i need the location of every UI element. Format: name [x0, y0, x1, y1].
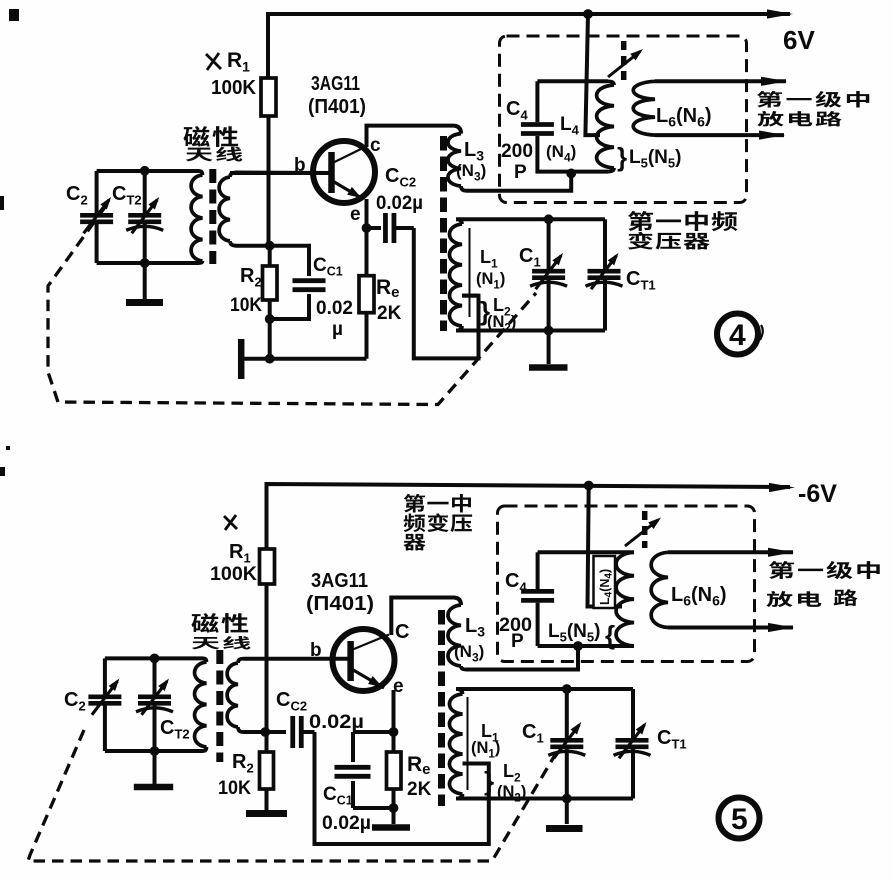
circled figure number 5	[719, 798, 760, 839]
svg-text:6V: 6V	[783, 25, 815, 55]
svg-text:3AG11: 3AG11	[311, 569, 368, 592]
scan speck left edge low	[0, 467, 5, 476]
wire L6 top lead fig5	[668, 550, 793, 554]
svg-text:P: P	[514, 162, 527, 183]
wire emitter down fig5	[392, 690, 396, 732]
transistor V1 emitter stroke fig4	[333, 181, 364, 199]
junction supply/primary fig4	[583, 9, 593, 19]
junction R2 bottom fig4	[265, 314, 275, 324]
transistor V1 emitter stroke fig5	[352, 669, 385, 688]
wire emitter down fig4	[365, 199, 369, 228]
wire C4L4 top rail fig4	[537, 79, 608, 83]
capacitor C1 fig4	[547, 219, 551, 271]
label di-yi-zhong col fig5	[404, 494, 425, 513]
label di-yi-ji-zhong fig4	[757, 91, 782, 108]
ground antenna tank fig4	[126, 299, 163, 306]
svg-text:b: b	[310, 640, 322, 661]
inductor L1 winding fig4	[456, 219, 462, 224]
wire supply tap fig5	[588, 486, 623, 607]
antenna primary winding fig4	[199, 171, 203, 175]
junction base bias fig4	[265, 241, 275, 251]
resistor R2 fig4	[268, 246, 272, 266]
label fang-dian fig5	[766, 591, 792, 607]
wire Re ground stem fig5	[392, 808, 396, 824]
inductor L6 fig4	[633, 81, 655, 135]
junction emitter node fig5	[389, 727, 399, 737]
label tianxian (antenna) fig4	[186, 148, 213, 162]
circled figure number 4	[717, 314, 758, 355]
junction C1 bottom fig4	[544, 326, 554, 336]
gang dashed link fig4	[48, 207, 536, 405]
svg-text:µ: µ	[332, 319, 343, 340]
svg-text:(П401): (П401)	[308, 96, 366, 118]
wire tank bottom rail fig5	[105, 749, 203, 753]
junction L3/C4 fig4	[566, 169, 576, 179]
junction C1 top fig4	[544, 214, 554, 224]
junction tank bottom fig4	[140, 258, 150, 268]
transistor V1 circle fig5	[333, 629, 395, 691]
trimmer core arrow fig4	[621, 41, 627, 80]
wire tank top rail fig4	[97, 169, 199, 173]
transistor V1 base bar fig4	[328, 152, 335, 193]
wire C4L4 bottom rail fig4	[571, 170, 608, 174]
dashed box T1 fig5	[498, 506, 755, 662]
wire L6 bottom lead fig5	[668, 626, 793, 630]
svg-text:0.02µ: 0.02µ	[376, 193, 423, 214]
ground IF tank fig5	[546, 825, 583, 832]
capacitor CT2 fig4	[143, 171, 147, 215]
inductor L4 L5 fig5	[616, 552, 634, 646]
resistor R1 fig4	[261, 78, 276, 116]
resistor Re fig4	[365, 228, 369, 276]
junction L3/C4 fig5	[573, 641, 583, 651]
svg-text:c: c	[370, 135, 381, 156]
wire collector to L3 fig5	[391, 598, 453, 636]
tap L1/L2 fig4	[462, 294, 479, 298]
label cixing (magnetic) fig4	[183, 126, 209, 147]
junction tank top fig5	[150, 654, 160, 664]
wire tank bottom rail fig5	[456, 797, 633, 801]
wire secondary bottom fig4	[235, 244, 270, 248]
svg-text:2K: 2K	[407, 779, 432, 800]
inductor L6 fig5	[651, 552, 668, 627]
svg-text:}: }	[484, 766, 494, 796]
svg-text:3AG11: 3AG11	[311, 72, 360, 95]
dashed box T1 fig4	[500, 36, 747, 203]
svg-text:5: 5	[731, 803, 748, 836]
svg-text:10K: 10K	[230, 295, 262, 316]
x-mark on R1 fig4	[206, 54, 221, 69]
transistor V1 circle fig4	[313, 141, 375, 203]
ground R2 fig5	[246, 810, 287, 817]
scan speck top-left	[9, 9, 19, 21]
wire C4L4 top rail fig5	[538, 550, 634, 554]
svg-text:0.02µ: 0.02µ	[309, 712, 364, 733]
capacitor CT1 fig4	[603, 219, 607, 271]
wire secondary top to base fig4	[235, 171, 332, 176]
label di-yi-zhong-pin fig4	[628, 211, 653, 231]
x-mark on R1 fig5	[224, 516, 237, 529]
transistor V1 base bar fig5	[347, 641, 354, 681]
label tianxian fig5	[192, 637, 220, 649]
capacitor CT2 fig5	[153, 658, 157, 697]
junction ground node fig4	[265, 354, 275, 364]
resistor R2 fig5	[265, 732, 269, 752]
wire emitter to Cc1 fig5	[353, 730, 394, 734]
label qi col fig5	[403, 534, 425, 551]
capacitor CC1 fig4	[270, 246, 309, 276]
transistor V1 collector stroke fig5	[352, 635, 390, 651]
junction Re bottom fig5	[389, 803, 399, 813]
core dashes IF fig5	[438, 610, 445, 806]
trimmer core arrow fig5	[642, 511, 648, 548]
svg-text:10K: 10K	[218, 778, 251, 799]
svg-text:2K: 2K	[377, 303, 402, 324]
antenna secondary winding fig5	[238, 659, 243, 663]
wire L3 bottom to C4 rail fig4	[466, 173, 571, 190]
ground antenna tank fig5	[134, 784, 173, 791]
ground Re fig5	[372, 824, 410, 831]
scan speck dot	[6, 446, 10, 450]
inductor L3 fig5	[448, 605, 461, 666]
svg-text:e: e	[350, 204, 361, 225]
wire tank ground stem fig5	[153, 751, 157, 784]
wire 6V supply rail fig5	[267, 484, 791, 549]
capacitor CC2 fig4	[367, 226, 382, 230]
wire C4L4 bottom rail fig5	[538, 644, 634, 648]
svg-text:0.02: 0.02	[316, 298, 353, 319]
label bian-ya-qi fig4	[628, 232, 653, 250]
wire L6 bottom lead fig4	[655, 133, 784, 137]
wire Cc1 bottom to Re fig5	[353, 806, 394, 810]
wire tank top rail fig5	[456, 687, 633, 691]
wire base fig5	[243, 657, 351, 661]
label fang-dian-lu fig4	[757, 111, 783, 126]
capacitor CT1 fig5	[631, 689, 635, 740]
wire R2 to ground fig4	[268, 319, 272, 359]
scan speck left edge	[0, 196, 4, 210]
junction emitter/Cc2 fig4	[362, 223, 372, 233]
label lu smudged fig5	[834, 589, 858, 606]
junction bias node fig5	[260, 727, 270, 737]
ferrite core dashes fig4	[209, 169, 216, 264]
wire ground rail fig4	[241, 357, 366, 361]
junction tank top fig4	[140, 166, 150, 176]
capacitor C2 fig4	[95, 171, 99, 215]
wire supply tap fig4	[585, 14, 600, 135]
svg-text:100K: 100K	[210, 564, 257, 585]
wire secondary bottom fig5	[243, 730, 265, 734]
resistor Re fig5	[392, 732, 396, 752]
capacitor C1 fig5	[565, 689, 569, 740]
capacitor C4 loop fig4	[535, 81, 539, 122]
antenna primary winding fig5	[203, 658, 207, 662]
wire tank top rail IF fig4	[456, 217, 605, 221]
junction tank bottom fig5	[150, 746, 160, 756]
svg-text:(П401): (П401)	[306, 593, 374, 615]
ferrite core dashes fig5	[216, 650, 223, 762]
label pin-bian-ya col fig5	[404, 514, 426, 533]
gang dashed link fig5	[28, 730, 555, 861]
capacitor CC2 fig5	[265, 730, 286, 734]
wire collector to L3 fig4	[367, 126, 454, 147]
wire C1 ground stem fig5	[565, 799, 569, 825]
L4 label box fig5	[594, 556, 616, 608]
inductor L1 winding fig5	[456, 689, 463, 694]
svg-text:4: 4	[729, 319, 746, 352]
wire Cc2 to tap fig4	[414, 228, 479, 358]
capacitor C2 fig5	[103, 658, 107, 697]
wire tank ground stem fig4	[547, 331, 551, 365]
wire 6V supply rail fig4	[268, 14, 790, 78]
antenna secondary winding fig4	[230, 173, 236, 178]
junction supply/primary fig5	[584, 481, 594, 491]
wire to ground fig4 tank	[143, 263, 147, 299]
svg-text:200: 200	[501, 141, 533, 162]
svg-text:{: {	[605, 620, 615, 650]
ground main fig4	[238, 339, 245, 379]
wire tank bottom rail IF fig4	[456, 329, 605, 333]
svg-text:P: P	[511, 631, 524, 652]
arrowhead 6V rail	[767, 9, 793, 18]
svg-text:}: }	[617, 142, 627, 172]
svg-text:0.02µ: 0.02µ	[322, 813, 371, 834]
wire tank top rail fig5	[105, 656, 203, 660]
resistor R1 fig5	[260, 549, 275, 584]
inductor L4 L5 fig4	[608, 81, 614, 85]
wire L3 bottom to C4 rail fig5	[466, 646, 578, 670]
svg-text:100K: 100K	[211, 77, 257, 99]
junction C1 top fig5	[562, 684, 572, 694]
wire base fig4	[230, 171, 332, 175]
capacitor CC1 fig5	[351, 732, 355, 762]
wire L6 top lead fig4	[655, 79, 786, 83]
svg-text:C: C	[395, 621, 409, 643]
core dashes IF fig4	[440, 136, 447, 331]
inductor L3 fig4	[448, 134, 461, 186]
label di-yi-ji-zhong fig5	[769, 561, 794, 579]
tap L1/L2 fig5	[463, 762, 489, 766]
arrowhead -6V rail	[769, 483, 795, 492]
junction C1 bottom fig5	[562, 794, 572, 804]
svg-text:-6V: -6V	[798, 480, 837, 508]
wire tank bottom rail fig4	[97, 261, 199, 265]
transistor V1 collector stroke fig4	[333, 147, 367, 164]
label cixing fig5	[191, 613, 218, 633]
scan speck near circle 4	[760, 325, 763, 340]
capacitor C4 loop fig5	[536, 552, 540, 589]
wire Cc2 to tap fig5	[315, 732, 489, 844]
ground IF tank fig4	[529, 364, 568, 371]
